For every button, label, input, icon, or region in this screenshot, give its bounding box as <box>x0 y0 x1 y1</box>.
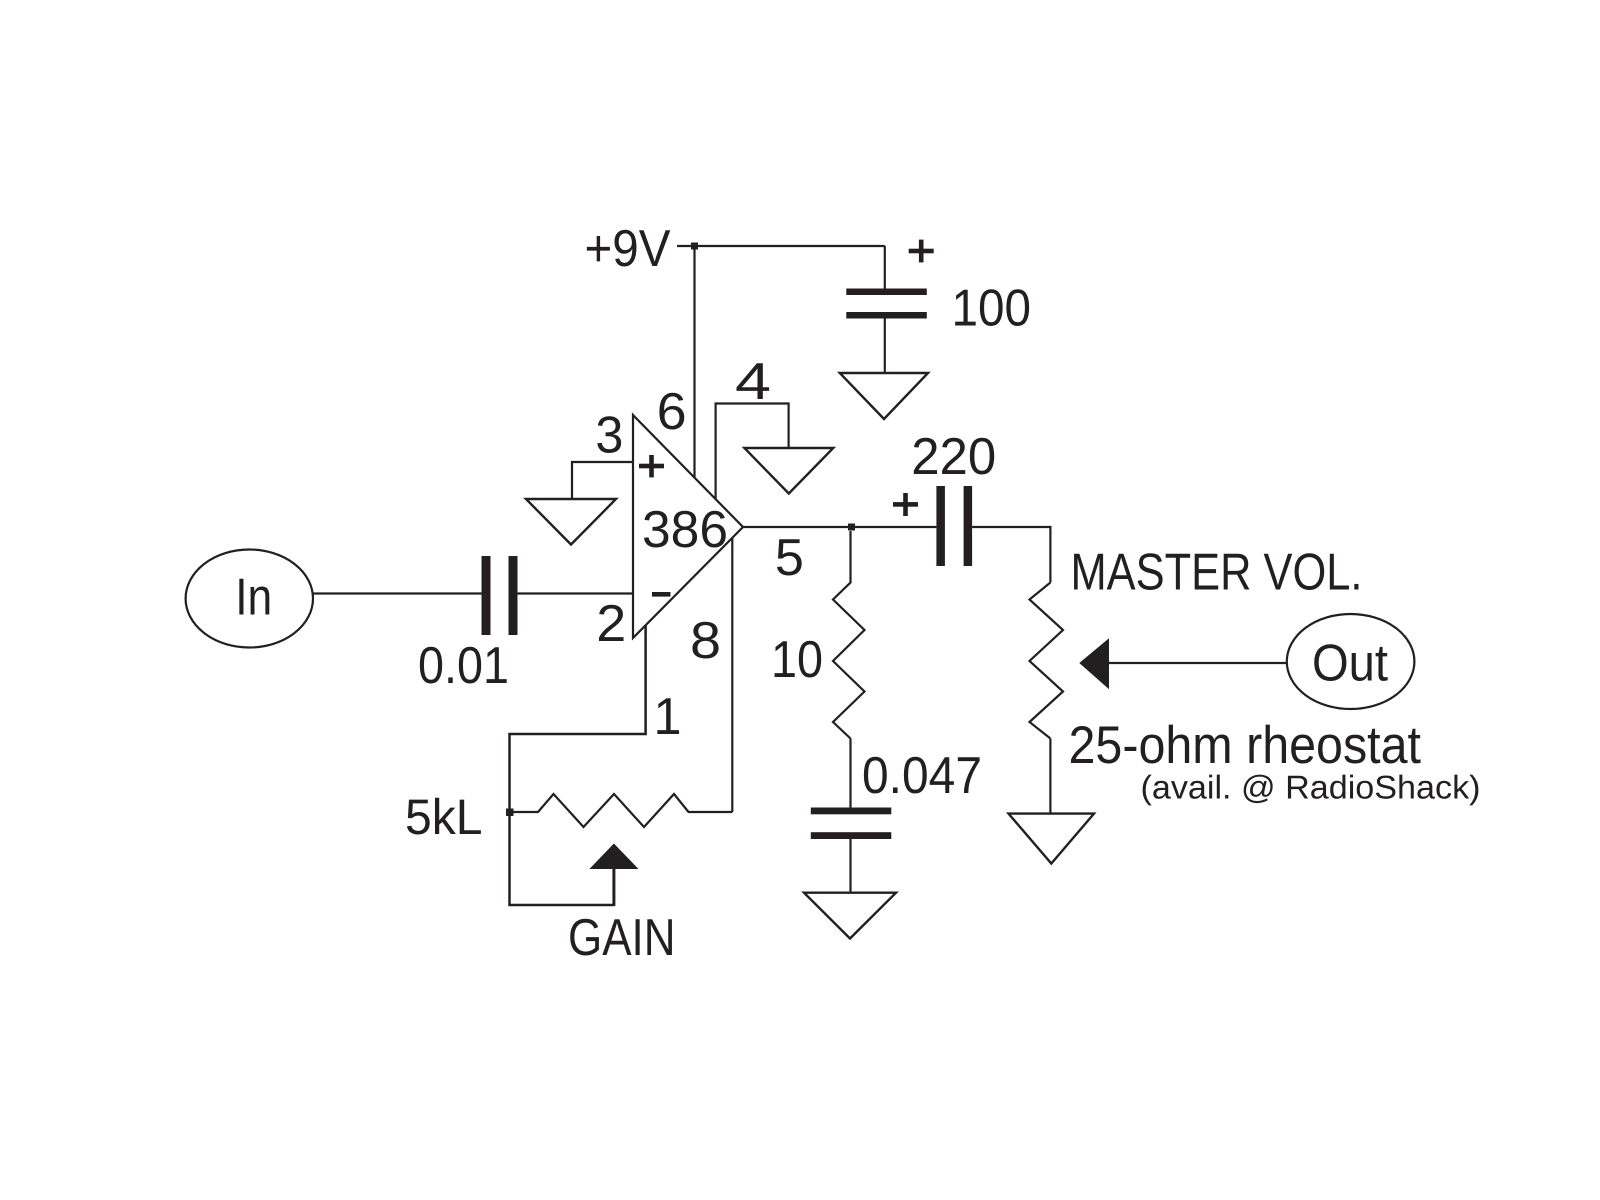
wire pin 5 output <box>743 526 936 528</box>
rheostat R2 25-ohm <box>1030 583 1064 739</box>
wire C3 to rheostat <box>972 527 1050 583</box>
pin 4 wire <box>716 404 789 500</box>
pin 1 wire and wiper return <box>510 626 646 906</box>
wiper arrow 5k pot <box>589 844 638 870</box>
svg-text:10: 10 <box>771 631 823 689</box>
svg-text:MASTER VOL.: MASTER VOL. <box>1071 543 1363 601</box>
svg-text:2: 2 <box>596 595 626 653</box>
junction 5k pot left <box>506 809 514 817</box>
svg-text:220: 220 <box>911 428 996 486</box>
svg-text:5: 5 <box>775 529 804 587</box>
capacitor C1 0.01 <box>482 556 518 635</box>
svg-text:8: 8 <box>690 612 721 670</box>
wire C4 to ground <box>849 839 851 893</box>
op-amp + input mark <box>639 455 664 477</box>
svg-text:In: In <box>235 569 272 627</box>
wire +9V down to C2 <box>884 246 886 289</box>
svg-text:0.047: 0.047 <box>862 747 982 805</box>
pin 8 wire <box>731 538 733 812</box>
net +9V wire <box>677 245 885 247</box>
op-amp - input mark <box>652 592 671 597</box>
node In <box>186 550 313 648</box>
svg-text:5kL: 5kL <box>405 789 483 845</box>
capacitor C4 0.047 <box>811 808 892 840</box>
svg-text:+9V: +9V <box>585 220 671 278</box>
resistor R1 10 <box>833 531 865 739</box>
ground R2 <box>1009 814 1095 864</box>
wire wiper to Out <box>1109 662 1287 664</box>
ground pin4 <box>744 448 833 494</box>
svg-text:GAIN: GAIN <box>568 909 676 967</box>
ground C4 <box>804 893 896 939</box>
pin 3 wire <box>572 462 633 499</box>
svg-text:1: 1 <box>654 688 682 746</box>
svg-text:100: 100 <box>952 279 1032 337</box>
wire In to C1 <box>313 592 482 594</box>
node Out <box>1287 614 1415 709</box>
svg-text:25-ohm rheostat: 25-ohm rheostat <box>1069 716 1422 775</box>
potentiometer R3 5k <box>510 794 733 827</box>
wire R1 to C4 <box>849 739 851 808</box>
plus sign C2 <box>909 240 934 263</box>
svg-text:Out: Out <box>1312 635 1388 693</box>
junction +9V <box>691 243 698 250</box>
junction node 5 <box>848 524 855 531</box>
pin 6 wire <box>693 246 695 478</box>
ground pin3 <box>526 499 616 545</box>
svg-text:4: 4 <box>735 353 771 411</box>
wiper arrow R2 <box>1079 638 1109 689</box>
svg-text:386: 386 <box>642 501 728 559</box>
svg-text:3: 3 <box>595 407 623 465</box>
wire C1 to op-amp pin 2 <box>518 592 633 594</box>
wire R2 to ground <box>1049 739 1051 814</box>
svg-text:(avail. @ RadioShack): (avail. @ RadioShack) <box>1141 769 1481 806</box>
ground C2 <box>840 373 928 419</box>
svg-text:0.01: 0.01 <box>418 637 509 695</box>
wire C2 to ground <box>884 319 886 374</box>
svg-text:6: 6 <box>657 383 687 441</box>
capacitor C2 100 <box>846 289 927 319</box>
op-amp U1 386 <box>633 415 743 638</box>
capacitor C3 220 <box>936 486 972 566</box>
plus sign C3 <box>893 493 918 516</box>
